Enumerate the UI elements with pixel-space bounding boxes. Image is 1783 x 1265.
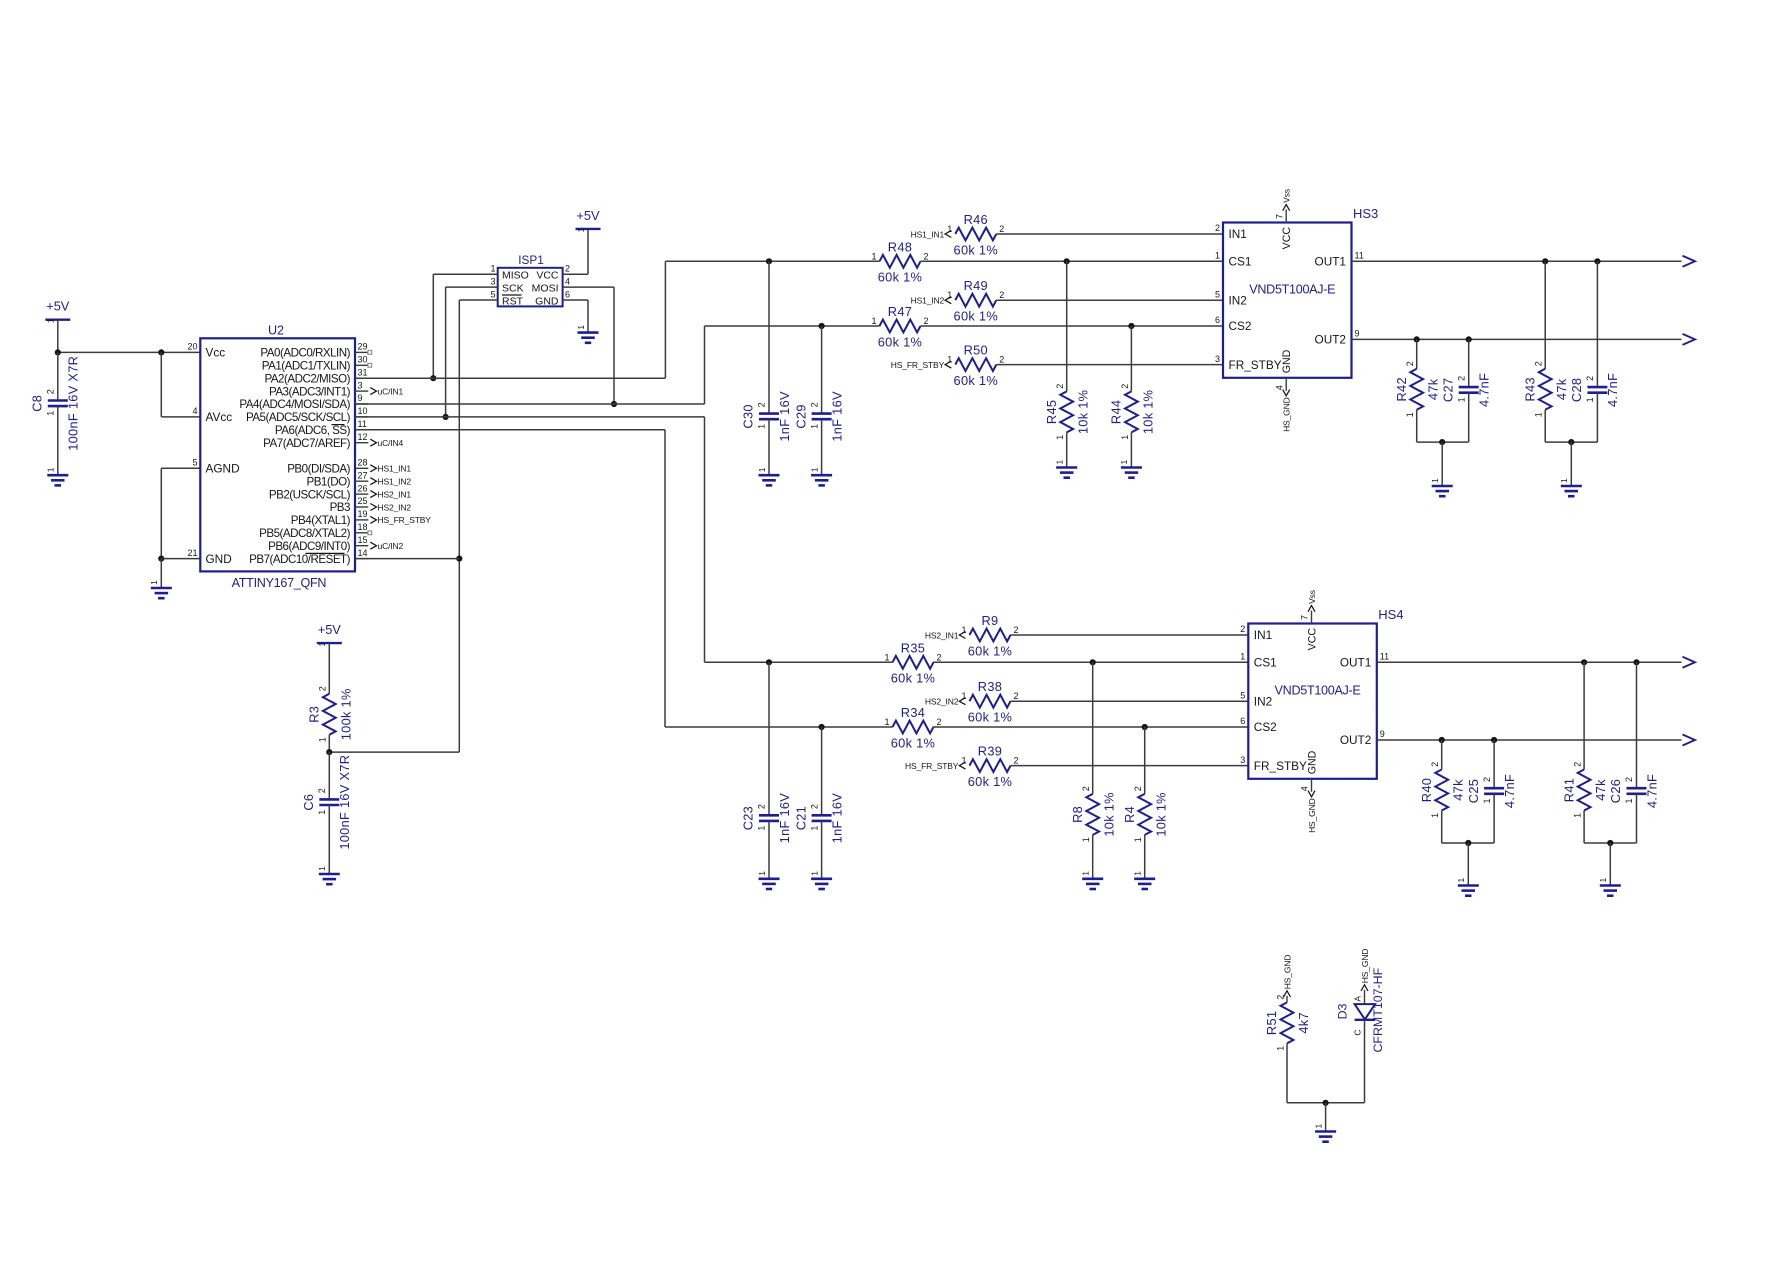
node junction C30 <box>766 258 772 264</box>
svg-text:60k 1%: 60k 1% <box>878 270 922 285</box>
wire <box>1468 393 1470 442</box>
svg-text:C23: C23 <box>741 806 756 830</box>
svg-text:AVcc: AVcc <box>206 410 233 424</box>
wire <box>58 351 201 353</box>
pin A stub D3 <box>1364 990 1366 1004</box>
svg-text:GND: GND <box>535 295 559 307</box>
svg-text:VND5T100AJ-E: VND5T100AJ-E <box>1249 283 1335 297</box>
svg-text:R38: R38 <box>978 679 1002 694</box>
svg-text:1: 1 <box>46 318 56 323</box>
svg-text:1: 1 <box>757 871 767 876</box>
connector ISP1 <box>490 253 570 308</box>
ground (R8) <box>1081 871 1104 889</box>
wire PA2/MISO net to R48 <box>355 377 665 379</box>
svg-text:5: 5 <box>1215 289 1220 299</box>
power symbol +5V (R3) <box>317 622 342 647</box>
svg-text:1: 1 <box>884 652 889 662</box>
svg-text:PA0(ADC0/RXLIN): PA0(ADC0/RXLIN) <box>260 347 350 360</box>
resistor R51 <box>1264 995 1311 1051</box>
net label HS_GND (D3) <box>1360 949 1370 991</box>
svg-text:IN1: IN1 <box>1254 628 1272 642</box>
wire MOSI <box>563 286 614 288</box>
svg-text:IN2: IN2 <box>1229 293 1247 307</box>
svg-text:60k 1%: 60k 1% <box>891 735 935 750</box>
svg-text:1: 1 <box>1624 798 1634 803</box>
svg-text:2: 2 <box>1430 762 1440 767</box>
ground (R51/D3) <box>1313 1124 1336 1142</box>
svg-text:27: 27 <box>358 470 368 480</box>
capacitor C26 <box>1608 774 1659 808</box>
svg-text:2: 2 <box>937 717 942 727</box>
svg-text:PA2(ADC2/MISO): PA2(ADC2/MISO) <box>264 372 350 385</box>
svg-text:47k: 47k <box>1451 779 1466 801</box>
wire <box>161 558 200 560</box>
capacitor C30 <box>741 391 792 442</box>
wire <box>821 727 823 815</box>
ground (ISP1) <box>576 325 599 343</box>
net label HS1_IN2 <box>370 477 411 487</box>
ground (R4) <box>1133 871 1156 889</box>
node junction +5V/Vcc <box>55 349 61 355</box>
svg-text:1: 1 <box>1120 435 1130 440</box>
svg-text:SCK: SCK <box>502 282 524 294</box>
wire rail <box>1417 441 1469 443</box>
svg-text:4.7nF: 4.7nF <box>1502 774 1517 808</box>
node junction rail R43/C28 <box>1568 439 1574 445</box>
svg-text:10k 1%: 10k 1% <box>1140 390 1155 434</box>
node junction R42 <box>1414 336 1420 342</box>
net label uC/IN2 <box>370 541 403 551</box>
pin 2 stub R51 <box>1286 996 1288 1003</box>
svg-text:PB7(ADC10/RESET): PB7(ADC10/RESET) <box>249 553 351 566</box>
wire <box>1144 727 1146 794</box>
svg-text:PB4(XTAL1): PB4(XTAL1) <box>291 514 351 527</box>
svg-text:CS2: CS2 <box>1229 319 1252 333</box>
wire <box>1609 843 1611 885</box>
svg-text:PA3(ADC3/INT1): PA3(ADC3/INT1) <box>269 385 351 398</box>
svg-text:1: 1 <box>1430 478 1440 483</box>
node junction MISO/PA2 <box>430 375 436 381</box>
svg-text:6: 6 <box>1240 716 1245 726</box>
svg-text:14: 14 <box>358 548 368 558</box>
svg-text:2: 2 <box>924 251 929 261</box>
wire <box>1441 740 1443 770</box>
svg-text:2: 2 <box>1120 384 1130 389</box>
svg-text:R43: R43 <box>1522 377 1537 401</box>
svg-text:1: 1 <box>1240 652 1245 662</box>
svg-text:1: 1 <box>317 642 327 647</box>
svg-text:2: 2 <box>809 804 819 809</box>
net label HS2_IN1 <box>370 489 411 499</box>
svg-text:1: 1 <box>318 737 328 742</box>
wire <box>1066 261 1068 391</box>
resistor R4 <box>1122 786 1169 842</box>
wire <box>1130 326 1132 391</box>
wire <box>328 643 330 694</box>
net label HS2_IN1 (R9) <box>925 630 966 640</box>
wire <box>1468 339 1470 387</box>
capacitor C25 <box>1466 774 1517 808</box>
svg-text:R3: R3 <box>307 706 322 723</box>
svg-text:1: 1 <box>1313 1124 1323 1129</box>
svg-text:1: 1 <box>884 717 889 727</box>
svg-text:PB1(DO): PB1(DO) <box>306 475 350 488</box>
wire <box>1011 700 1249 702</box>
svg-text:4: 4 <box>565 277 570 287</box>
microcontroller U2 ATTINY167_QFN <box>187 324 368 590</box>
svg-text:1: 1 <box>809 467 819 472</box>
svg-text:R44: R44 <box>1109 400 1124 424</box>
resistor R45 <box>1044 384 1091 440</box>
svg-text:1: 1 <box>1534 412 1544 417</box>
resistor R44 <box>1109 384 1156 440</box>
svg-text:1: 1 <box>46 411 56 416</box>
svg-text:2: 2 <box>999 224 1004 234</box>
svg-text:10k 1%: 10k 1% <box>1154 792 1169 836</box>
svg-text:VCC: VCC <box>1306 628 1318 651</box>
svg-text:PA7(ADC7/AREF): PA7(ADC7/AREF) <box>263 437 350 450</box>
capacitor C21 <box>793 793 844 844</box>
svg-text:21: 21 <box>187 548 197 558</box>
svg-text:4.7nF: 4.7nF <box>1605 373 1620 407</box>
svg-text:1nF 16V: 1nF 16V <box>777 391 792 442</box>
svg-text:HS2_IN2: HS2_IN2 <box>378 502 412 512</box>
svg-text:2: 2 <box>1055 384 1065 389</box>
svg-text:1: 1 <box>961 691 966 701</box>
wire OUT1 (HS4) <box>1377 661 1682 663</box>
IC HS3 VND5T100AJ-E <box>1215 206 1378 391</box>
node junction R4 <box>1142 724 1148 730</box>
svg-text:C8: C8 <box>30 395 45 412</box>
net label HS1_IN1 (R46) <box>911 229 952 239</box>
svg-text:1: 1 <box>757 424 767 429</box>
wire OUT2 (HS3) <box>1352 338 1682 340</box>
svg-text:MOSI: MOSI <box>532 282 559 294</box>
svg-text:PA4(ADC4/MOSI/SDA): PA4(ADC4/MOSI/SDA) <box>239 398 350 411</box>
svg-text:HS_FR_STBY: HS_FR_STBY <box>378 515 432 525</box>
resistor R42 <box>1394 361 1441 417</box>
wire <box>1596 261 1598 387</box>
svg-text:60k 1%: 60k 1% <box>968 643 1012 658</box>
svg-text:R49: R49 <box>964 278 988 293</box>
net label HS1_IN2 (R49) <box>911 296 952 306</box>
node junction C26 <box>1633 659 1639 665</box>
svg-text:60k 1%: 60k 1% <box>891 671 935 686</box>
node junction R51/D3 gnd <box>1323 1100 1329 1106</box>
svg-text:2: 2 <box>1014 756 1019 766</box>
svg-text:3: 3 <box>1215 354 1220 364</box>
wire <box>1092 662 1094 794</box>
svg-text:GND: GND <box>1281 349 1293 373</box>
resistor R48 <box>871 239 928 284</box>
wire <box>821 821 823 878</box>
ground (C6) <box>317 866 340 884</box>
svg-text:PA6(ADC6, SS): PA6(ADC6, SS) <box>275 424 351 437</box>
wire <box>328 752 330 800</box>
svg-text:1: 1 <box>149 580 159 585</box>
svg-text:2: 2 <box>1405 361 1415 366</box>
svg-text:2: 2 <box>1081 786 1091 791</box>
resistor R9 <box>961 613 1018 658</box>
power symbol +5V (C8) <box>45 299 70 324</box>
svg-text:1: 1 <box>1573 813 1583 818</box>
node junction rail R40/C25 <box>1465 840 1471 846</box>
svg-text:5: 5 <box>192 458 197 468</box>
svg-text:4.7nF: 4.7nF <box>1644 774 1659 808</box>
wire <box>821 419 823 474</box>
wire <box>1570 442 1572 485</box>
svg-text:R34: R34 <box>901 705 925 720</box>
node junction AGND/GND <box>158 556 164 562</box>
svg-text:1: 1 <box>1215 251 1220 261</box>
net label HS_GND (HS3) <box>1282 390 1292 432</box>
svg-text:60k 1%: 60k 1% <box>878 334 922 349</box>
power symbol +5V (ISP1) <box>576 208 601 233</box>
node junction Vcc/AVcc <box>158 349 164 355</box>
svg-text:HS1_IN1: HS1_IN1 <box>378 464 412 474</box>
svg-text:VCC: VCC <box>1281 227 1293 250</box>
wire <box>1066 432 1068 466</box>
svg-text:HS2_IN1: HS2_IN1 <box>378 489 412 499</box>
wire <box>933 726 1248 728</box>
svg-text:R39: R39 <box>978 744 1002 759</box>
ground (U2) <box>149 580 172 598</box>
svg-text:PB3: PB3 <box>330 501 350 514</box>
svg-text:7: 7 <box>1274 214 1284 219</box>
svg-text:1: 1 <box>576 227 586 232</box>
svg-text:1: 1 <box>1598 878 1608 883</box>
wire <box>921 260 1224 262</box>
svg-text:PB0(DI/SDA): PB0(DI/SDA) <box>287 463 350 476</box>
resistor R40 <box>1419 762 1466 818</box>
node junction C23 <box>766 659 772 665</box>
svg-text:9: 9 <box>1380 729 1385 739</box>
svg-text:11: 11 <box>1355 251 1364 261</box>
svg-text:C25: C25 <box>1466 779 1481 803</box>
svg-text:3: 3 <box>490 277 495 287</box>
wire <box>996 233 1223 235</box>
net label HS_GND (R51) <box>1282 955 1292 997</box>
wire <box>1583 811 1585 844</box>
svg-text:11: 11 <box>1380 652 1389 662</box>
capacitor C28 <box>1569 373 1620 407</box>
svg-text:1: 1 <box>947 224 952 234</box>
svg-text:2: 2 <box>318 686 328 691</box>
svg-text:R51: R51 <box>1264 1011 1279 1035</box>
svg-text:R4: R4 <box>1122 806 1137 823</box>
wire <box>821 326 823 414</box>
svg-text:1: 1 <box>1133 837 1143 842</box>
wire <box>1325 1103 1327 1131</box>
svg-text:100k 1%: 100k 1% <box>338 688 353 740</box>
svg-text:2: 2 <box>1215 223 1220 233</box>
wire <box>768 261 770 413</box>
node junction C27 <box>1466 336 1472 342</box>
svg-text:12: 12 <box>358 432 368 442</box>
svg-text:1: 1 <box>1585 397 1595 402</box>
svg-text:+5V: +5V <box>576 208 600 223</box>
node junction R44 <box>1128 323 1134 329</box>
svg-text:2: 2 <box>1534 361 1544 366</box>
node junction C25 <box>1491 737 1497 743</box>
svg-text:GND: GND <box>206 552 232 566</box>
svg-text:Vss: Vss <box>1307 590 1317 604</box>
svg-text:1: 1 <box>46 467 56 472</box>
ground (R44) <box>1119 460 1142 478</box>
svg-text:PB6(ADC9/INT0): PB6(ADC9/INT0) <box>268 540 351 553</box>
svg-text:2: 2 <box>565 264 570 274</box>
svg-text:PB5(ADC8/XTAL2): PB5(ADC8/XTAL2) <box>259 527 351 540</box>
net label HS2_IN2 (R38) <box>925 697 966 707</box>
resistor R38 <box>961 679 1018 724</box>
svg-text:2: 2 <box>999 290 1004 300</box>
svg-text:C27: C27 <box>1440 378 1455 402</box>
svg-text:U2: U2 <box>268 324 284 338</box>
net label HS_GND (HS4) <box>1307 791 1317 833</box>
wire OUT1 (HS3) <box>1352 260 1682 262</box>
svg-text:1: 1 <box>961 756 966 766</box>
net label HS_FR_STBY (R39) <box>905 761 965 771</box>
ground (R45) <box>1055 460 1078 478</box>
svg-text:AGND: AGND <box>206 462 240 476</box>
svg-text:HS1_IN2: HS1_IN2 <box>378 477 412 487</box>
wire <box>996 299 1223 301</box>
svg-text:ATTINY167_QFN: ATTINY167_QFN <box>232 576 327 590</box>
svg-text:1: 1 <box>1456 397 1466 402</box>
svg-text:HS_GND: HS_GND <box>1282 397 1292 432</box>
wire <box>921 325 1224 327</box>
svg-text:FR_STBY: FR_STBY <box>1254 759 1307 773</box>
svg-text:1nF 16V: 1nF 16V <box>777 793 792 844</box>
svg-text:2: 2 <box>1585 376 1595 381</box>
svg-text:47k: 47k <box>1426 378 1441 400</box>
svg-text:HS1_IN1: HS1_IN1 <box>911 229 945 239</box>
svg-text:C21: C21 <box>793 806 808 830</box>
svg-text:OUT2: OUT2 <box>1315 333 1346 347</box>
svg-text:2: 2 <box>1624 777 1634 782</box>
svg-text:1: 1 <box>947 290 952 300</box>
wire <box>1596 393 1598 442</box>
node junction R3/C6/RST <box>326 749 332 755</box>
ground (R40/C25) <box>1456 878 1479 896</box>
svg-text:2: 2 <box>1240 624 1245 634</box>
svg-text:2: 2 <box>1133 786 1143 791</box>
svg-text:1: 1 <box>1482 798 1492 803</box>
svg-text:R9: R9 <box>982 613 999 628</box>
svg-text:+5V: +5V <box>318 622 342 637</box>
wire <box>160 468 162 558</box>
wire <box>57 352 59 400</box>
svg-text:R41: R41 <box>1561 778 1576 802</box>
node junction C29 <box>819 323 825 329</box>
ground (R43/C28) <box>1559 478 1582 496</box>
svg-text:2: 2 <box>1482 777 1492 782</box>
no-connect pin 18 <box>368 531 372 535</box>
svg-text:PA5(ADC5/SCK/SCL): PA5(ADC5/SCK/SCL) <box>246 411 351 424</box>
svg-text:60k 1%: 60k 1% <box>954 309 998 324</box>
wire MISO <box>433 273 497 275</box>
ground (R41/C26) <box>1598 878 1621 896</box>
node junction R40 <box>1439 737 1445 743</box>
svg-text:C30: C30 <box>741 404 756 428</box>
capacitor C6 <box>301 755 352 850</box>
wire <box>768 821 770 878</box>
wire <box>1144 835 1146 878</box>
wire <box>1636 662 1638 788</box>
wire <box>1286 1043 1288 1102</box>
svg-text:FR_STBY: FR_STBY <box>1229 358 1282 372</box>
svg-text:RST: RST <box>502 295 524 307</box>
svg-text:100nF 16V X7R: 100nF 16V X7R <box>337 755 352 850</box>
wire RST <box>459 299 497 301</box>
wire PA6/SS net to R34 <box>355 429 665 431</box>
wire PB7 to RST <box>355 558 459 560</box>
net label HS1_IN1 <box>370 464 411 474</box>
resistor R47 <box>871 304 928 349</box>
wire <box>1416 410 1418 442</box>
wire <box>160 559 162 588</box>
wire <box>1011 634 1249 636</box>
node junction R8 <box>1090 659 1096 665</box>
svg-text:OUT1: OUT1 <box>1340 656 1371 670</box>
svg-text:60k 1%: 60k 1% <box>968 710 1012 725</box>
node junction rail R41/C26 <box>1607 840 1613 846</box>
net label Vss (HS4) <box>1307 590 1317 612</box>
capacitor C27 <box>1440 373 1491 407</box>
svg-text:HS_GND: HS_GND <box>1307 798 1317 833</box>
net label HS_FR_STBY (R50) <box>891 360 951 370</box>
resistor R35 <box>884 640 941 685</box>
svg-text:C6: C6 <box>301 794 316 811</box>
svg-text:15: 15 <box>358 535 368 545</box>
svg-text:HS3: HS3 <box>1353 206 1378 221</box>
ground (C8) <box>46 467 69 485</box>
svg-text:1: 1 <box>1055 460 1065 465</box>
svg-text:4: 4 <box>192 406 197 416</box>
svg-text:47k: 47k <box>1593 779 1608 801</box>
svg-text:1: 1 <box>871 251 876 261</box>
ground (C30) <box>757 467 780 485</box>
svg-text:2: 2 <box>46 389 56 394</box>
svg-text:4k7: 4k7 <box>1296 1012 1311 1034</box>
svg-text:2: 2 <box>757 804 767 809</box>
resistor R49 <box>947 278 1004 323</box>
svg-text:10k 1%: 10k 1% <box>1076 390 1091 434</box>
svg-text:MISO: MISO <box>502 270 529 282</box>
svg-text:A: A <box>1352 996 1362 1002</box>
wire PA4/MOSI net to R47 <box>355 403 705 405</box>
node junction rail R42/C27 <box>1439 439 1445 445</box>
svg-text:60k 1%: 60k 1% <box>968 774 1012 789</box>
hier label OUT2 (HS3) <box>1683 334 1696 345</box>
svg-text:1: 1 <box>1081 837 1091 842</box>
svg-text:4.7nF: 4.7nF <box>1477 373 1492 407</box>
svg-text:CS2: CS2 <box>1254 720 1277 734</box>
wire rail <box>1442 842 1494 844</box>
svg-text:R42: R42 <box>1394 377 1409 401</box>
svg-text:2: 2 <box>1456 376 1466 381</box>
svg-text:uC/IN2: uC/IN2 <box>378 541 404 551</box>
hier label OUT1 (HS3) <box>1683 256 1696 267</box>
svg-text:2: 2 <box>809 402 819 407</box>
svg-text:1: 1 <box>757 826 767 831</box>
svg-text:47k: 47k <box>1554 378 1569 400</box>
svg-text:HS4: HS4 <box>1378 607 1403 622</box>
svg-text:19: 19 <box>358 509 368 519</box>
svg-text:1: 1 <box>1055 435 1065 440</box>
wire VCC to +5V <box>563 273 588 275</box>
resistor R41 <box>1561 762 1608 818</box>
